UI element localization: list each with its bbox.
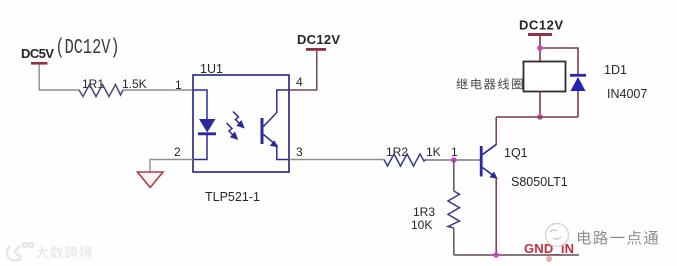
- svg-text:1Q1: 1Q1: [504, 146, 528, 160]
- svg-text:IN4007: IN4007: [607, 87, 647, 101]
- U1 internal LED: [193, 90, 216, 160]
- resistor R2 zigzag: [384, 154, 426, 166]
- svg-text:1: 1: [175, 78, 182, 92]
- junction node 1: [451, 157, 457, 163]
- svg-text:10K: 10K: [411, 218, 432, 232]
- watermark logo right: [546, 224, 569, 247]
- optocoupler U1 box: [193, 75, 289, 172]
- wire node1 to R3: [453, 160, 455, 191]
- wire pin2 to ground: [150, 160, 193, 173]
- svg-text:1K: 1K: [426, 145, 441, 159]
- transistor Q1 emitter: [483, 168, 496, 177]
- resistor R3 zigzag: [448, 191, 460, 228]
- relay coil label 继电器线圈: [456, 78, 467, 89]
- bottom wire GND_IN rail: [454, 254, 579, 256]
- wire R3 to bottom rail: [453, 228, 455, 255]
- svg-text:4: 4: [296, 75, 303, 89]
- svg-text:DC12V: DC12V: [519, 18, 563, 33]
- U1 light arrows: [227, 112, 244, 139]
- svg-text:1: 1: [451, 145, 458, 159]
- transistor Q1 collector: [483, 117, 497, 155]
- watermark text 大数跨境: [36, 246, 49, 259]
- junction emitter/bottom: [493, 252, 499, 258]
- wire collector rail: [496, 116, 578, 118]
- wire top node to diode: [540, 48, 578, 75]
- wire pin3 to R2: [289, 159, 384, 161]
- transistor Q1 base bar: [480, 146, 483, 177]
- svg-text:TLP521-1: TLP521-1: [205, 190, 260, 204]
- wire R2 to node 1 and base: [426, 159, 480, 161]
- diode D1: [570, 74, 586, 77]
- watermark text 电路一点通: [578, 231, 591, 245]
- power bar DC12V mid: [306, 48, 326, 51]
- U1 phototransistor: [262, 90, 289, 160]
- svg-text:(DC12V): (DC12V): [56, 37, 120, 60]
- svg-text:1U1: 1U1: [200, 62, 223, 76]
- svg-text:1.5K: 1.5K: [122, 77, 147, 91]
- svg-text:S8050LT1: S8050LT1: [511, 175, 568, 189]
- wire relay bottom: [539, 92, 541, 118]
- wire emitter down: [495, 177, 497, 255]
- power bar DC12V right: [528, 33, 552, 36]
- junction top node: [537, 45, 543, 51]
- wire R1 to U1 pin1: [123, 89, 193, 91]
- power bar DC5V: [31, 62, 48, 65]
- wire DC12V to pin4: [289, 51, 317, 90]
- resistor R1 zigzag: [79, 85, 123, 97]
- svg-text:1R1: 1R1: [82, 77, 104, 91]
- ground: [138, 172, 164, 188]
- svg-text:2: 2: [174, 145, 181, 159]
- wire DC5V to R1: [39, 65, 79, 91]
- junction bottom node: [537, 114, 543, 120]
- svg-text:1R3: 1R3: [413, 205, 435, 219]
- relay coil box: [524, 62, 566, 92]
- wire DC12V down to relay: [539, 36, 541, 62]
- svg-text:3: 3: [296, 145, 303, 159]
- svg-text:DC12V: DC12V: [297, 32, 340, 47]
- watermark logo bottom-left: [7, 243, 33, 261]
- svg-text:1D1: 1D1: [604, 63, 627, 77]
- svg-text:DC5V: DC5V: [21, 46, 54, 61]
